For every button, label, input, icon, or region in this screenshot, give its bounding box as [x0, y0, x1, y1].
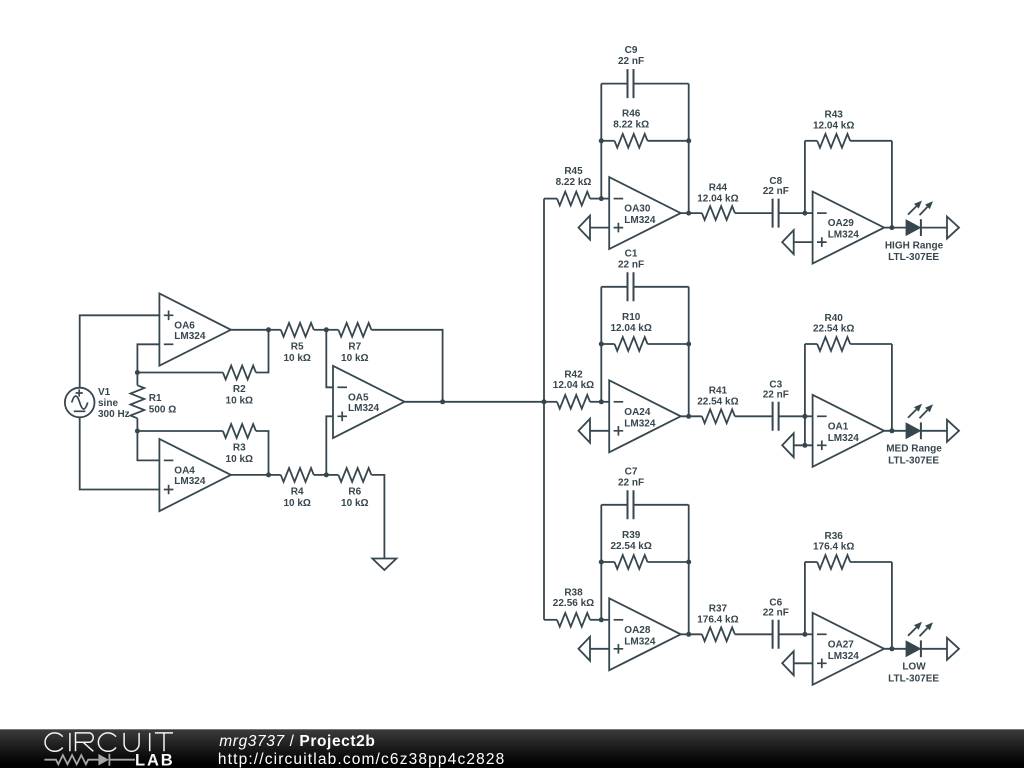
wire OA24 output [681, 415, 702, 417]
junction OA1 + [802, 443, 807, 448]
wire OA1 output to LED [884, 430, 906, 432]
op-amp OA29 [813, 192, 885, 264]
wire OA24 + to ground [590, 430, 609, 432]
label R39 [611, 530, 652, 552]
label C9 [618, 45, 644, 67]
wire OA27 + to ground [794, 662, 813, 664]
wire R43 right vertical [891, 141, 893, 228]
svg-text:LM324: LM324 [828, 433, 860, 444]
svg-text:LM324: LM324 [348, 403, 380, 414]
svg-text:22.56 kΩ: 22.56 kΩ [553, 598, 594, 609]
junction R7 feedback [440, 399, 445, 404]
ground at OA1 + [782, 433, 794, 457]
wire OA30 output [681, 212, 702, 214]
svg-text:OA28: OA28 [624, 625, 651, 636]
svg-text:22 nF: 22 nF [763, 607, 789, 618]
node B junction [135, 429, 140, 434]
label R43 [813, 110, 854, 132]
svg-text:OA6: OA6 [174, 320, 195, 331]
resistor R39 [601, 555, 688, 569]
label C6 [763, 597, 789, 618]
wire LED to ground [921, 648, 947, 650]
label R44 [697, 182, 738, 204]
svg-text:LM324: LM324 [624, 636, 656, 647]
svg-text:C9: C9 [625, 45, 638, 56]
svg-text:12.04 kΩ: 12.04 kΩ [611, 323, 652, 334]
svg-text:C1: C1 [625, 248, 638, 259]
resistor R10 [601, 337, 688, 351]
wire OA4 output [231, 474, 269, 476]
logo resistor-diode squiggle [44, 755, 98, 764]
wire OA5 output [405, 401, 545, 403]
op-amp OA4 [159, 439, 231, 511]
svg-text:OA5: OA5 [348, 392, 369, 403]
junction R10 left [599, 342, 604, 347]
svg-text:176.4 kΩ: 176.4 kΩ [697, 615, 738, 626]
svg-text:12.04 kΩ: 12.04 kΩ [553, 380, 594, 391]
svg-text:R5: R5 [291, 341, 304, 352]
resistor R42 [557, 395, 601, 409]
svg-text:300 Hz: 300 Hz [98, 409, 130, 420]
svg-text:OA1: OA1 [828, 421, 849, 432]
label LOW [888, 662, 939, 685]
junction R42/R10 [599, 399, 604, 404]
junction R38/R39 [599, 617, 604, 622]
svg-text:12.04 kΩ: 12.04 kΩ [697, 193, 738, 204]
capacitor C7 [601, 490, 688, 519]
svg-text:LM324: LM324 [174, 331, 206, 342]
op-amp OA24 [609, 380, 681, 452]
svg-text:R1: R1 [149, 393, 162, 404]
junction OA30 output [686, 211, 691, 216]
op-amp OA1 [813, 395, 885, 467]
svg-text:12.04 kΩ: 12.04 kΩ [813, 120, 854, 131]
svg-text:22 nF: 22 nF [618, 477, 644, 488]
label R10 [611, 312, 652, 334]
ground [372, 559, 396, 571]
label OA30 [624, 204, 656, 227]
LED arrows [908, 404, 933, 419]
svg-text:R40: R40 [825, 313, 844, 324]
LED arrows [908, 201, 933, 216]
junction C8/R43 [802, 211, 807, 216]
junction OA24 output [686, 414, 691, 419]
ground at OA29 + [782, 230, 794, 254]
label HIGH Range [885, 241, 944, 264]
svg-text:LTL-307EE: LTL-307EE [888, 673, 939, 684]
junction C6/R36 [802, 632, 807, 637]
LED arrows [908, 622, 933, 637]
svg-text:R3: R3 [233, 443, 246, 454]
svg-text:LM324: LM324 [828, 651, 860, 662]
label OA28 [624, 625, 656, 648]
op-amp OA6 [159, 294, 231, 366]
label C1 [618, 248, 644, 270]
svg-text:R38: R38 [564, 587, 583, 598]
svg-text:R6: R6 [348, 487, 361, 498]
label R46 [613, 109, 649, 131]
wire OA29 output to LED [884, 227, 906, 229]
wire to OA24 - [601, 401, 609, 403]
junction R10 right [686, 342, 691, 347]
wire OA29 + to ground [794, 241, 813, 243]
svg-text:LM324: LM324 [624, 418, 656, 429]
svg-text:R37: R37 [709, 604, 728, 615]
label OA27 [828, 639, 860, 662]
OA24 - pin symbol [614, 401, 624, 403]
junction R46 right [686, 138, 691, 143]
wire input row R42 [544, 401, 557, 403]
capacitor C3 [773, 402, 805, 431]
svg-text:10 kΩ: 10 kΩ [283, 353, 310, 364]
svg-text:8.22 kΩ: 8.22 kΩ [556, 177, 592, 188]
svg-text:R39: R39 [622, 530, 641, 541]
wire OA27 output to LED [884, 648, 906, 650]
OA4 + pin symbol [164, 485, 174, 495]
wire OA1 + to ground [794, 444, 813, 446]
junction branch [542, 399, 547, 404]
label R36 [813, 531, 854, 553]
label OA6 [174, 320, 206, 342]
wire V1 top to OA6 + [80, 315, 160, 387]
wire to OA28 - [601, 619, 609, 621]
svg-text:10 kΩ: 10 kΩ [283, 498, 310, 509]
svg-text:sine: sine [98, 398, 118, 409]
wire LED to ground [921, 430, 947, 432]
resistor R36 [805, 555, 892, 569]
op-amp OA28 [609, 598, 681, 670]
wire OA30 + to ground [590, 227, 609, 229]
wire feedback right vertical OA30 [688, 84, 690, 214]
svg-text:R41: R41 [709, 386, 728, 397]
OA5 - pin symbol [337, 386, 347, 388]
LED LOW [907, 640, 921, 657]
svg-text:22 nF: 22 nF [763, 389, 789, 400]
svg-text:OA27: OA27 [828, 639, 855, 650]
label R2 [226, 384, 253, 407]
capacitor C9 [601, 69, 688, 98]
svg-text:LTL-307EE: LTL-307EE [888, 252, 939, 263]
wire R4R6 junction to OA5 + [326, 416, 333, 475]
label R37 [697, 604, 738, 626]
resistor R2 [137, 330, 268, 380]
OA29 - pin symbol [817, 212, 827, 214]
svg-text:LM324: LM324 [828, 230, 860, 241]
wire OA28 + to ground [590, 648, 609, 650]
svg-text:OA24: OA24 [624, 407, 651, 418]
resistor R3 [137, 424, 268, 475]
resistor R37 [702, 627, 773, 641]
svg-text:R42: R42 [564, 369, 583, 380]
wire feedback left vertical OA24 [600, 287, 602, 402]
svg-text:22 nF: 22 nF [618, 56, 644, 67]
resistor R38 [557, 613, 601, 627]
OA24 + pin symbol [614, 426, 624, 436]
svg-text:R44: R44 [709, 182, 728, 193]
label R45 [556, 166, 592, 188]
resistor R6 [326, 468, 384, 559]
wire R43 left vertical [804, 141, 806, 213]
junction OA27 output [889, 646, 894, 651]
label R38 [553, 587, 594, 609]
resistor R41 [702, 409, 773, 423]
ground at OA27 + [782, 651, 794, 675]
svg-text:R43: R43 [825, 110, 844, 121]
svg-text:R45: R45 [564, 166, 583, 177]
svg-text:R4: R4 [291, 487, 304, 498]
svg-text:LTL-307EE: LTL-307EE [888, 455, 939, 466]
op-amp OA5 [333, 366, 405, 438]
label OA29 [828, 218, 860, 241]
wire to OA29 - [805, 212, 813, 214]
wire to OA27 - [805, 633, 813, 635]
svg-text:OA30: OA30 [624, 204, 651, 215]
label R7 [341, 341, 368, 364]
wire feedback left vertical OA30 [600, 84, 602, 199]
label R4 [283, 487, 310, 510]
junction R4/R6 [324, 472, 329, 477]
wire R40 left vertical [804, 344, 806, 416]
junction OA28 output [686, 632, 691, 637]
wire input row R38 [544, 619, 557, 621]
OA28 - pin symbol [614, 619, 624, 621]
wire R5R7 junction to OA5 - [326, 330, 333, 388]
label MED Range [886, 444, 942, 467]
op-amp OA30 [609, 177, 681, 249]
svg-text:22.54 kΩ: 22.54 kΩ [697, 397, 738, 408]
OA4 - pin symbol [164, 459, 174, 461]
resistor R46 [601, 134, 688, 148]
OA5 + pin symbol [337, 412, 347, 422]
svg-text:C7: C7 [625, 466, 638, 477]
label V1 [98, 387, 130, 420]
label R42 [553, 369, 594, 391]
svg-text:R10: R10 [622, 312, 641, 323]
junction R5/R7 [324, 327, 329, 332]
junction R39 right [686, 560, 691, 565]
wire input row R45 [544, 198, 557, 200]
svg-text:10 kΩ: 10 kΩ [226, 396, 253, 407]
junction R39 left [599, 560, 604, 565]
junction OA4 out [266, 472, 271, 477]
resistor R43 [805, 134, 892, 148]
OA6 - pin symbol [164, 343, 174, 345]
wire feedback right vertical OA24 [688, 287, 690, 417]
footer bar [0, 729, 1024, 768]
ground at OA24 + [579, 419, 591, 443]
junction C3/R40 [802, 414, 807, 419]
label R5 [283, 341, 310, 364]
OA27 - pin symbol [817, 633, 827, 635]
label C7 [618, 466, 644, 488]
resistor R1 [130, 373, 144, 432]
label R1 [149, 393, 176, 416]
ground after LED [947, 638, 959, 660]
ground after LED [947, 420, 959, 442]
OA1 - pin symbol [817, 415, 827, 417]
label R6 [341, 487, 368, 510]
label R41 [697, 386, 738, 408]
svg-text:22.54 kΩ: 22.54 kΩ [813, 324, 854, 335]
label OA4 [174, 466, 206, 488]
OA27 + pin symbol [817, 659, 827, 669]
OA28 + pin symbol [614, 644, 624, 654]
label OA5 [348, 392, 380, 414]
svg-text:10 kΩ: 10 kΩ [341, 498, 368, 509]
svg-text:R46: R46 [622, 109, 641, 120]
resistor R7 [326, 323, 442, 402]
LED MED Range [907, 422, 921, 439]
wire OA6 - to node A [137, 344, 159, 372]
voltage source V1 [65, 388, 95, 418]
svg-text:LM324: LM324 [624, 215, 656, 226]
svg-text:LM324: LM324 [174, 476, 206, 487]
wire feedback right vertical OA28 [688, 505, 690, 635]
label C8 [763, 176, 789, 197]
capacitor C8 [773, 199, 805, 228]
label OA24 [624, 407, 656, 430]
svg-text:R36: R36 [825, 531, 844, 542]
svg-text:10 kΩ: 10 kΩ [341, 353, 368, 364]
svg-text:22 nF: 22 nF [618, 259, 644, 270]
svg-text:OA4: OA4 [174, 466, 195, 477]
svg-text:OA29: OA29 [828, 218, 855, 229]
wire R36 left vertical [804, 562, 806, 634]
label R40 [813, 313, 854, 335]
CircuitLab logo CIRCUIT [45, 733, 173, 751]
resistor R40 [805, 337, 892, 351]
svg-text:HIGH Range: HIGH Range [885, 241, 944, 252]
wire V1 bottom to OA4 + [80, 417, 160, 489]
ground at OA30 + [579, 216, 591, 240]
junction OA6 out [266, 327, 271, 332]
wire OA4 - to node B [137, 431, 159, 460]
junction R45/R46 [599, 196, 604, 201]
svg-text:R2: R2 [233, 384, 246, 395]
svg-text:R7: R7 [348, 341, 361, 352]
OA6 + pin symbol [164, 311, 174, 321]
wire feedback left vertical OA28 [600, 505, 602, 620]
wire OA6 output [231, 329, 269, 331]
OA30 + pin symbol [614, 223, 624, 233]
wire to OA1 - [805, 415, 813, 417]
resistor R5 [269, 323, 327, 337]
OA1 + pin symbol [817, 441, 827, 451]
svg-text:176.4 kΩ: 176.4 kΩ [813, 542, 854, 553]
svg-text:22 nF: 22 nF [763, 186, 789, 197]
capacitor C1 [601, 272, 688, 301]
OA30 - pin symbol [614, 198, 624, 200]
wire R36 right vertical [891, 562, 893, 649]
junction OA1 output [889, 428, 894, 433]
wire LED to ground [921, 227, 947, 229]
svg-text:22.54 kΩ: 22.54 kΩ [611, 541, 652, 552]
svg-text:10 kΩ: 10 kΩ [226, 454, 253, 465]
wire to OA30 - [601, 198, 609, 200]
label C3 [763, 379, 789, 400]
LED HIGH Range [907, 219, 921, 236]
svg-text:LOW: LOW [902, 662, 926, 673]
svg-text:V1: V1 [98, 387, 111, 398]
junction R46 left [599, 138, 604, 143]
resistor R4 [269, 468, 327, 482]
svg-text:MED Range: MED Range [886, 444, 942, 455]
OA29 + pin symbol [817, 237, 827, 247]
resistor R44 [702, 206, 773, 220]
node A junction [135, 370, 140, 375]
ground at OA28 + [579, 637, 591, 661]
label OA1 [828, 421, 860, 444]
op-amp OA27 [813, 613, 885, 685]
junction OA29 output [889, 225, 894, 230]
wire OA1 - to + vertical [804, 416, 806, 445]
resistor R45 [557, 192, 601, 206]
capacitor C6 [773, 620, 805, 649]
wire OA28 output [681, 633, 702, 635]
label R3 [226, 443, 253, 466]
ground after LED [947, 217, 959, 239]
svg-text:8.22 kΩ: 8.22 kΩ [613, 120, 649, 131]
wire branch vertical [543, 199, 545, 620]
wire R40 right vertical [891, 344, 893, 431]
svg-text:500 Ω: 500 Ω [149, 404, 176, 415]
